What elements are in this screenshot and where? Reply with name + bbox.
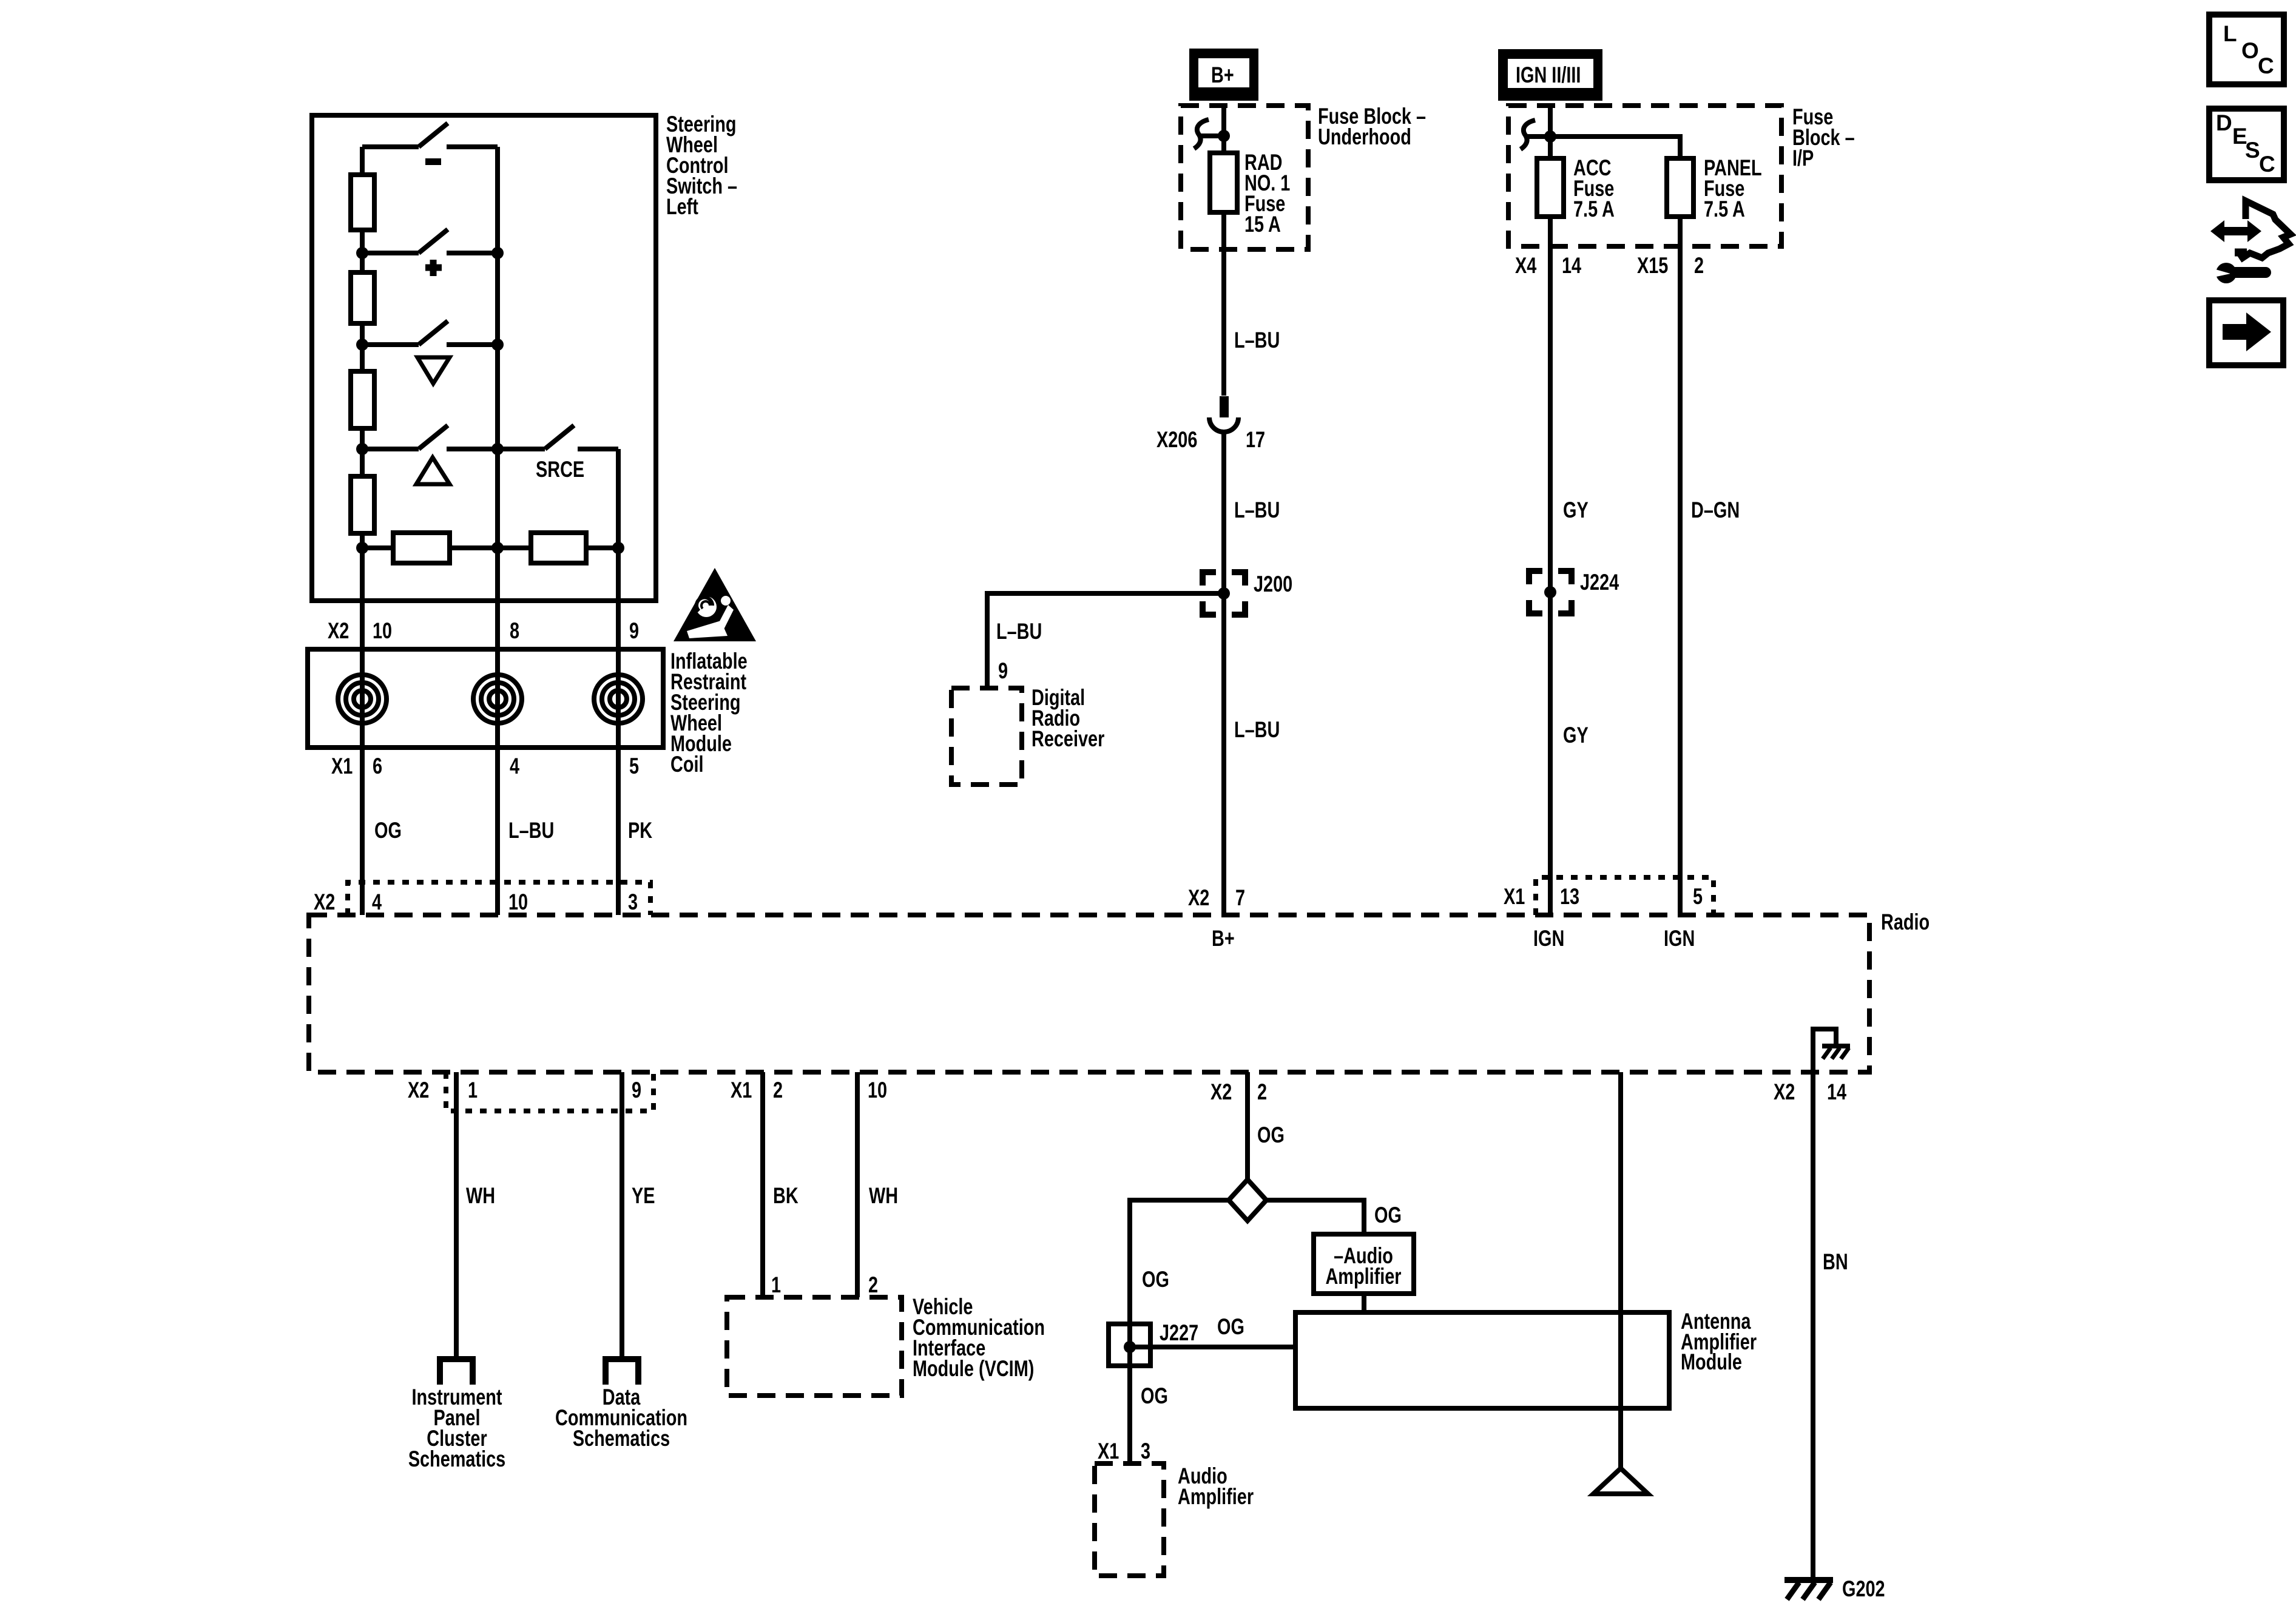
chassis ground triangle xyxy=(1593,1468,1648,1494)
svg-text:L–BU: L–BU xyxy=(1234,498,1280,523)
radio internal ground stub xyxy=(1813,1029,1836,1072)
wire WH xyxy=(454,1072,459,1356)
fuse clip symbol xyxy=(1194,120,1230,149)
splice J200 xyxy=(1203,572,1245,615)
resistor R4 xyxy=(351,476,374,533)
wire antenna module ground passthrough xyxy=(1618,1072,1623,1468)
svg-text:Module (VCIM): Module (VCIM) xyxy=(913,1357,1034,1382)
switch S3 (seek down) xyxy=(362,321,498,345)
Inflatable Restraint Steering Wheel Module Coil box xyxy=(308,649,663,748)
svg-text:Coil: Coil xyxy=(670,752,703,777)
svg-text:X2: X2 xyxy=(1210,1080,1232,1105)
svg-text:7: 7 xyxy=(1235,886,1245,911)
svg-text:Amplifier: Amplifier xyxy=(1325,1264,1401,1289)
splice diamond xyxy=(1229,1180,1266,1221)
svg-text:X4: X4 xyxy=(1515,254,1537,279)
svg-text:2: 2 xyxy=(868,1273,878,1298)
IGN II/III power flag xyxy=(1498,49,1602,101)
adjust icon wrench xyxy=(2216,263,2237,283)
VCIM dashed box xyxy=(727,1297,902,1396)
svg-text:9: 9 xyxy=(998,659,1008,684)
connector X2 dotted box (pins 4,10,3) xyxy=(348,882,650,915)
svg-text:10: 10 xyxy=(868,1078,887,1103)
wire: bottom bus xyxy=(362,545,618,550)
svg-text:PK: PK xyxy=(628,819,652,843)
seek-up triangle xyxy=(416,457,450,484)
svg-text:15 A: 15 A xyxy=(1244,212,1281,237)
svg-text:7.5 A: 7.5 A xyxy=(1704,197,1745,222)
svg-text:X2: X2 xyxy=(1774,1080,1795,1105)
svg-text:X1: X1 xyxy=(331,754,353,779)
wire L-BU column xyxy=(495,548,500,915)
svg-text:2: 2 xyxy=(1694,254,1704,279)
svg-text:3: 3 xyxy=(1141,1439,1150,1464)
resistor R1 xyxy=(351,175,374,230)
SIR warning triangle icon xyxy=(674,568,756,641)
off-page fork WH xyxy=(437,1359,476,1385)
svg-text:WH: WH xyxy=(869,1184,898,1209)
switch S1 (volume -) xyxy=(362,123,498,147)
svg-text:BK: BK xyxy=(773,1184,799,1209)
svg-text:IGN: IGN xyxy=(1533,927,1564,951)
minus symbol xyxy=(425,158,441,165)
Radio dashed box xyxy=(309,915,1869,1072)
ACC fuse 7.5A xyxy=(1537,158,1564,217)
svg-text:B+: B+ xyxy=(1211,63,1234,88)
svg-text:9: 9 xyxy=(632,1078,641,1103)
svg-text:GY: GY xyxy=(1563,498,1589,523)
resistor R2 xyxy=(351,272,374,323)
svg-text:X1: X1 xyxy=(731,1078,752,1103)
wire BK xyxy=(760,1072,765,1297)
seek-down triangle xyxy=(417,357,450,383)
svg-text:14: 14 xyxy=(1562,254,1582,279)
adjust icon pointer outline xyxy=(2238,201,2291,258)
svg-text:14: 14 xyxy=(1827,1080,1847,1105)
wire ACC column xyxy=(1548,106,1553,915)
wire BN to G202 xyxy=(1811,1072,1815,1578)
svg-text:OG: OG xyxy=(1142,1268,1169,1292)
fuse clip symbol xyxy=(1521,120,1556,149)
svg-text:L: L xyxy=(2223,21,2237,46)
LOC icon box xyxy=(2209,15,2284,84)
svg-text:X2: X2 xyxy=(328,619,349,644)
svg-text:J227: J227 xyxy=(1160,1321,1198,1346)
wire: SRCE right vertical xyxy=(616,449,621,548)
wire: left resistor chain xyxy=(360,147,365,548)
switch SRCE xyxy=(545,425,618,449)
svg-text:L–BU: L–BU xyxy=(1234,328,1280,353)
svg-text:J200: J200 xyxy=(1254,572,1292,597)
svg-text:2: 2 xyxy=(773,1078,783,1103)
svg-text:J224: J224 xyxy=(1580,570,1619,595)
wire YE xyxy=(620,1072,624,1356)
off-page fork YE xyxy=(603,1359,641,1385)
svg-text:C: C xyxy=(2258,53,2274,78)
svg-text:X2: X2 xyxy=(314,890,335,915)
svg-text:5: 5 xyxy=(1693,885,1703,910)
svg-text:1: 1 xyxy=(771,1273,781,1298)
svg-text:6: 6 xyxy=(373,754,382,779)
adjust icon double arrow xyxy=(2222,227,2250,235)
svg-text:L–BU: L–BU xyxy=(996,619,1042,644)
svg-text:Amplifier: Amplifier xyxy=(1178,1485,1254,1510)
switch S4 (seek up) xyxy=(362,425,545,449)
svg-text:Underhood: Underhood xyxy=(1318,125,1411,150)
resistor R6 xyxy=(531,533,586,563)
svg-text:17: 17 xyxy=(1246,428,1265,453)
svg-text:Radio: Radio xyxy=(1881,910,1930,935)
wire diamond right branch xyxy=(1266,1200,1364,1234)
Antenna Amplifier Module box xyxy=(1295,1312,1669,1408)
wire X206 to radio pin 7 xyxy=(1221,432,1226,915)
splice J224 xyxy=(1529,571,1572,613)
svg-text:X1: X1 xyxy=(1504,885,1525,910)
wire to antenna module xyxy=(1362,1294,1366,1312)
svg-text:L–BU: L–BU xyxy=(1234,718,1280,743)
svg-text:OG: OG xyxy=(1374,1203,1402,1228)
Fuse Block - Underhood dashed box xyxy=(1181,106,1308,249)
plus symbol xyxy=(425,260,442,276)
svg-text:BN: BN xyxy=(1823,1250,1848,1275)
coil 3 xyxy=(594,675,643,723)
Audio Amplifier dashed box xyxy=(1095,1463,1164,1576)
svg-text:3: 3 xyxy=(628,890,638,915)
coil 1 xyxy=(338,675,387,723)
wire PK column xyxy=(616,548,621,915)
svg-text:5: 5 xyxy=(629,754,639,779)
svg-text:X2: X2 xyxy=(1188,886,1209,911)
svg-text:X206: X206 xyxy=(1156,428,1197,453)
forward arrow icon box xyxy=(2209,300,2283,365)
svg-text:8: 8 xyxy=(510,619,519,644)
Fuse Block - I/P dashed box xyxy=(1508,106,1781,246)
wire: middle vertical xyxy=(495,147,500,548)
wire OG column xyxy=(360,548,365,915)
junction dots xyxy=(356,247,368,259)
splice J227 box xyxy=(1109,1324,1150,1366)
svg-text:X15: X15 xyxy=(1637,254,1668,279)
wire J227 to antenna amplifier module xyxy=(1130,1345,1295,1349)
connector X1 dotted box (pins 13,5) xyxy=(1536,877,1714,915)
svg-text:IGN: IGN xyxy=(1664,927,1695,951)
svg-text:OG: OG xyxy=(1217,1315,1244,1340)
wire jog to PANEL fuse xyxy=(1550,137,1680,915)
svg-text:Receiver: Receiver xyxy=(1032,727,1104,752)
wire OG from X2-2 xyxy=(1245,1072,1250,1180)
svg-text:O: O xyxy=(2241,38,2259,63)
RAD NO.1 fuse 15A xyxy=(1210,153,1237,212)
svg-text:4: 4 xyxy=(372,890,382,915)
svg-text:10: 10 xyxy=(373,619,392,644)
svg-text:7.5 A: 7.5 A xyxy=(1573,197,1615,222)
B+ power flag xyxy=(1189,49,1258,101)
Digital Radio Receiver dashed box xyxy=(951,688,1022,785)
switch box: Steering Wheel Control Switch - Left xyxy=(312,115,656,601)
svg-text:13: 13 xyxy=(1560,885,1579,910)
svg-text:B+: B+ xyxy=(1212,927,1235,951)
svg-text:IGN II/III: IGN II/III xyxy=(1516,63,1581,88)
svg-text:Left: Left xyxy=(666,195,698,220)
DESC icon box xyxy=(2209,109,2284,180)
svg-text:D–GN: D–GN xyxy=(1691,498,1740,523)
wire WH 2 xyxy=(855,1072,860,1297)
svg-text:OG: OG xyxy=(1141,1384,1168,1409)
svg-text:S: S xyxy=(2245,138,2260,163)
svg-text:Schematics: Schematics xyxy=(408,1447,505,1472)
resistor R5 xyxy=(393,533,450,563)
wire diamond left branch to J227 and audio amp xyxy=(1130,1200,1229,1463)
svg-text:WH: WH xyxy=(466,1184,495,1209)
svg-text:1: 1 xyxy=(468,1078,478,1103)
connector X206 inline xyxy=(1220,396,1229,417)
svg-text:Module: Module xyxy=(1681,1350,1742,1375)
radio internal ground symbol xyxy=(1822,1046,1850,1059)
wire branch to Digital Radio Receiver xyxy=(987,593,1224,688)
svg-text:9: 9 xyxy=(629,619,639,644)
svg-text:X2: X2 xyxy=(408,1078,429,1103)
PANEL fuse 7.5A xyxy=(1667,158,1693,217)
ground G202 xyxy=(1784,1580,1833,1599)
svg-text:G202: G202 xyxy=(1842,1577,1885,1602)
svg-text:4: 4 xyxy=(510,754,520,779)
connector X2 dotted box (pins 1,9) xyxy=(446,1072,653,1111)
svg-text:YE: YE xyxy=(632,1184,655,1209)
wire B+ to X206 xyxy=(1221,106,1226,396)
svg-text:GY: GY xyxy=(1563,723,1589,748)
svg-text:2: 2 xyxy=(1257,1080,1267,1105)
svg-text:L–BU: L–BU xyxy=(508,819,554,843)
svg-text:I/P: I/P xyxy=(1792,146,1814,171)
svg-text:D: D xyxy=(2216,110,2232,135)
svg-text:OG: OG xyxy=(374,819,402,843)
svg-text:SRCE: SRCE xyxy=(536,457,584,482)
-Audio Amplifier box xyxy=(1314,1234,1414,1294)
switch S2 (volume +) xyxy=(362,229,498,253)
svg-text:Schematics: Schematics xyxy=(573,1426,670,1451)
coil 2 xyxy=(473,675,522,723)
svg-text:10: 10 xyxy=(508,890,528,915)
svg-text:X1: X1 xyxy=(1098,1439,1119,1464)
svg-text:C: C xyxy=(2259,152,2275,177)
svg-text:OG: OG xyxy=(1257,1123,1285,1148)
resistor R3 xyxy=(351,371,374,428)
